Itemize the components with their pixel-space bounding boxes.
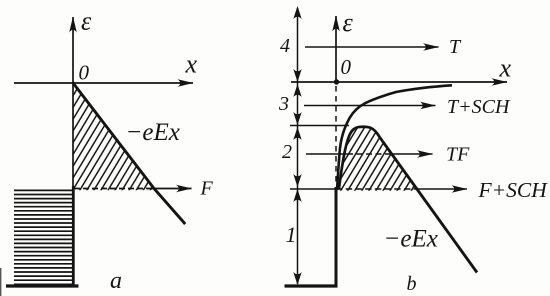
scan edge artifact left <box>0 268 2 296</box>
svg-text:−eEx: −eEx <box>384 226 438 253</box>
svg-text:T+SCH: T+SCH <box>447 96 511 118</box>
svg-text:a: a <box>110 268 122 294</box>
svg-text:TF: TF <box>446 144 470 166</box>
svg-text:−eEx: −eEx <box>126 119 180 146</box>
svg-text:b: b <box>407 273 417 295</box>
dimension line with interval arrows (b) <box>297 8 299 284</box>
F+SCH level solid left segment (b) <box>290 188 336 190</box>
svg-text:1: 1 <box>286 222 297 247</box>
F+SCH level dashed segment (b) <box>336 188 414 190</box>
svg-text:T: T <box>449 36 462 58</box>
epsilon axis thick lower segment (a) <box>72 186 75 287</box>
svg-text:4: 4 <box>280 35 290 57</box>
svg-text:2: 2 <box>282 141 292 163</box>
svg-text:ε: ε <box>81 7 92 36</box>
T+SCH arrow (b) <box>304 105 436 107</box>
Fermi level arrow F (a) <box>152 188 192 190</box>
epsilon axis dashed extension (b) <box>335 86 337 186</box>
x axis (b) <box>291 81 507 83</box>
Fermi sea horizontal-line block (a) <box>14 190 74 284</box>
TF arrow right segment (b) <box>391 153 433 155</box>
Schottky barrier dome outline (b) <box>339 127 383 189</box>
svg-text:0: 0 <box>79 61 90 85</box>
TF arrow solid left segment (b) <box>306 153 347 155</box>
Fermi level dashed line (a) <box>74 188 152 190</box>
epsilon axis (b) <box>335 16 337 82</box>
hatched triangle barrier (a) <box>73 83 156 190</box>
potential wall (b) <box>335 187 338 287</box>
svg-text:ε: ε <box>343 8 354 37</box>
x axis (a) <box>14 82 193 84</box>
descending -eEx line (b) <box>383 141 478 272</box>
metal bottom line (b) <box>285 284 338 287</box>
T arrow (b) <box>305 46 439 48</box>
svg-text:F+SCH: F+SCH <box>478 178 549 202</box>
hatched Schottky barrier dome (b) <box>339 127 418 191</box>
svg-text:x: x <box>185 50 198 79</box>
barrier-top boundary line (b) <box>290 125 349 127</box>
epsilon axis (a) <box>72 17 74 287</box>
dimension arrowheads (b) <box>293 6 301 285</box>
svg-text:F: F <box>200 178 214 200</box>
metal bottom line (a) <box>6 284 79 287</box>
svg-text:x: x <box>499 54 512 83</box>
svg-text:3: 3 <box>278 93 289 115</box>
origin dot (b) <box>334 79 339 84</box>
-eEx potential line (a) <box>72 82 185 224</box>
TF arrow dashed middle segment (b) <box>347 153 391 155</box>
image-force potential curve (b) <box>337 85 452 190</box>
svg-text:0: 0 <box>341 55 352 79</box>
F+SCH arrow right segment (b) <box>414 188 467 190</box>
